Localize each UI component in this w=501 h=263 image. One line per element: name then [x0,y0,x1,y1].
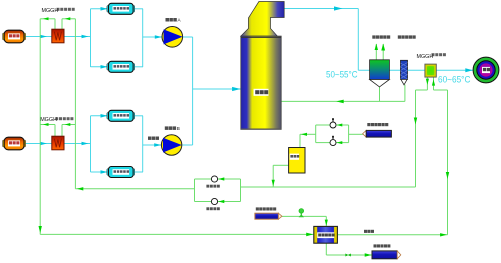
label: drain flash tank [374,244,391,247]
svg-text:B: B [177,126,180,131]
circulating water pump 2 [211,198,217,204]
wire: cooler-A outlet duct to ESP split A [64,9,91,67]
electrostatic precipitator ESP4 [107,167,135,178]
label: demin water header [367,123,388,126]
wire: condenser/demister drains back to absorber [281,85,405,104]
svg-text:MGGH: MGGH [40,117,57,123]
label: washing condenser [372,35,390,38]
wire: ESP3/ESP4 outlet header B [134,116,144,172]
label: MGGH flue gas cooler A [42,8,75,14]
wire: duct into ESP4 [91,170,109,174]
wire: make-up pumps to make-up tank [300,133,316,148]
svg-text:MGGH: MGGH [42,8,59,14]
svg-text:MGGH: MGGH [417,54,434,60]
wire: ESP1/ESP2 outlet header A [134,9,144,67]
label: raw flue gas [148,137,159,140]
demineralized water header [363,130,392,137]
wire: demin water header to make-up pumps [349,133,363,135]
air preheater B (APH) [3,137,26,150]
auxiliary steam header [255,213,282,219]
absorber tower top duct [241,2,284,37]
wire: make-up tank outlet into return header [272,165,289,187]
air preheater A (APH) [3,30,26,43]
svg-text:A: A [178,18,182,23]
absorber tower body (FGD) [241,36,281,129]
label: ID fan A [166,18,182,23]
wire: make-up pump parallel loop [316,124,349,145]
svg-text:60~65°C: 60~65°C [438,75,471,86]
wire: MGGH reheater right (inlet) port rise [432,77,449,235]
wire: clean gas duct through condenser, demister, MGGH reheater to stack [358,68,473,72]
MGGH flue gas reheater [425,64,436,77]
wire: duct into ESP1 [91,7,109,11]
wire: APH-B to cooler-B flue duct [25,142,52,146]
make-up water pump 1 [330,118,336,128]
wire: APH-A to cooler-A flue duct [25,35,52,39]
wire: cooler-B water supply/return U-bends [40,123,75,136]
electrostatic precipitator ESP3 [107,110,135,121]
wire: header B into fan B [143,143,162,147]
label: ID fan B [165,126,180,131]
wire: condenser vapour vent arrows [375,44,386,60]
svg-text:50~55°C: 50~55°C [326,70,358,81]
wire: cold water riser back to coolers [75,19,194,191]
label: circulating water [364,230,374,233]
MGGH flue gas cooler B heat exchanger [52,136,64,150]
wire: hot water downcomer to steam heater [39,19,314,236]
wire: absorber top outlet duct [284,6,358,70]
make-up water pump 2 [330,136,336,146]
label: auxiliary steam header [256,207,276,210]
wire: auxiliary steam header to steam heater [282,216,328,226]
label: MGGH flue gas cooler B [40,117,73,123]
wire: duct into ESP2 [91,65,109,69]
electrostatic precipitator ESP2 [107,61,135,72]
induced draft fan A [162,27,183,48]
label: wet demister [398,35,416,38]
MGGH flue gas cooler A heat exchanger [52,29,64,43]
steam heater [314,226,338,243]
wire: steam heater outlet to reheater riser [337,233,447,236]
stack / chimney (top view) [473,57,499,83]
valve: drain line valve [345,254,350,257]
wire: header A into fan A [143,35,163,39]
wire: circulating pump parallel loop [195,177,241,203]
label: circulating pump 1 [206,185,219,188]
induced draft fan B [161,135,181,155]
make-up water tank [289,148,305,174]
washing condenser vessel [370,60,390,87]
circulating water pump 1 [211,176,217,182]
wire: MGGH reheater left (outlet) port drop [416,77,430,90]
wire: duct into ESP3 [91,114,109,118]
wet demister column [401,60,408,85]
wire: return header from MGGH reheater to pumps [241,90,418,187]
wire: fan outlet riser to absorber inlet [182,37,241,145]
electrostatic precipitator ESP1 [107,3,135,14]
label: circulating pump 2 [206,207,219,210]
valve: steam line globe valve [299,209,304,218]
wire: steam heater drain to flash tank [326,243,372,257]
wire: cooler-A water supply/return U-bends [40,17,75,29]
label: MGGH flue gas reheater [417,53,446,60]
wire: cooler-B outlet duct to ESP split B [64,116,91,172]
drain flash tank [372,251,401,259]
